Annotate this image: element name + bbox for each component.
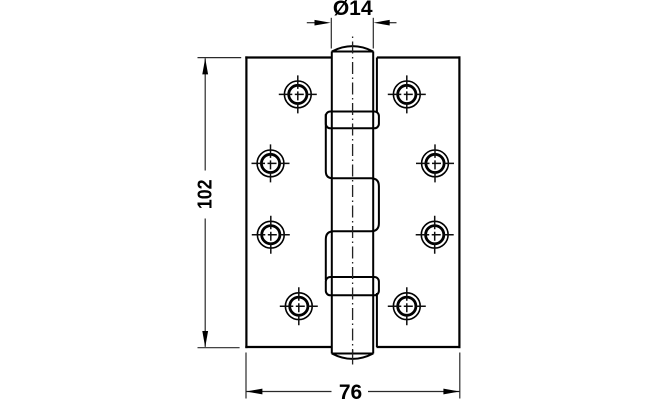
knuckle curls middle (left-right-left): [326, 114, 379, 280]
svg-text:76: 76: [339, 381, 362, 400]
dimension 76 line: [246, 391, 459, 393]
svg-text:Ø14: Ø14: [333, 0, 373, 20]
bearing collar 1: [326, 112, 379, 129]
dimension 76 extension line left: [245, 353, 247, 399]
dimension 102 line: [204, 58, 206, 347]
dimension 76 extension line right: [459, 353, 461, 399]
screw hole H8: [388, 287, 426, 325]
dimension 76 arrow right: [443, 389, 459, 395]
dimension 102 extension line top: [198, 57, 242, 59]
barrel left line: [331, 52, 333, 354]
knuckle curl top right: [376, 58, 378, 114]
knuckle cap bottom arc: [332, 354, 373, 359]
dimension Ø14 extension lines: [331, 18, 373, 49]
knuckle curl bottom right: [376, 293, 378, 347]
right leaf bottom edge: [377, 346, 461, 348]
dimension Ø14 left arrow: [307, 22, 316, 24]
screw hole H5: [388, 75, 426, 113]
screw hole H2: [252, 144, 290, 182]
knuckle cap top arc: [332, 46, 373, 51]
screw hole H4: [280, 287, 318, 325]
left leaf top edge: [245, 56, 331, 58]
left leaf left edge: [245, 56, 247, 348]
right leaf right edge: [458, 56, 460, 348]
right leaf top edge: [377, 56, 461, 58]
dimension 102 arrow down: [202, 331, 208, 347]
bearing collar 2: [326, 277, 379, 295]
screw hole H7: [416, 216, 454, 254]
pin center line: [352, 37, 354, 353]
barrel right line: [372, 52, 374, 354]
screw hole H3: [252, 216, 290, 254]
screw hole H6: [416, 144, 454, 182]
dimension Ø14 right arrow: [389, 22, 397, 24]
dimension 102 arrow up: [202, 58, 208, 74]
screw hole H1: [279, 75, 317, 113]
svg-text:102: 102: [194, 179, 216, 209]
dimension 76 arrow left: [246, 389, 262, 395]
dimension 102 extension line bottom: [198, 347, 240, 349]
left leaf bottom edge: [245, 346, 332, 348]
